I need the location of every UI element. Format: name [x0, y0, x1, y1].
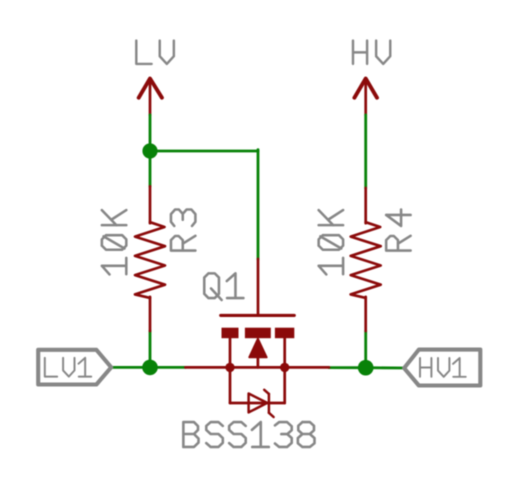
transistor Q1 gate pin	[257, 259, 260, 314]
wire Q1 source to node B (pin)	[185, 366, 230, 369]
wire R4 bottom to node C	[364, 331, 367, 368]
junction Q1 source node	[225, 363, 234, 372]
port label LV1	[45, 358, 91, 377]
wire LV supply to node A	[149, 115, 152, 151]
resistor R3	[135, 186, 165, 331]
body diode wire	[230, 402, 285, 405]
transistor Q1 body pad	[245, 328, 271, 339]
net label LV	[136, 41, 174, 64]
junction node B	[142, 360, 158, 376]
body diode right leg	[283, 367, 286, 403]
wire node A to gate corner	[150, 150, 258, 153]
wire node A to R3 top	[149, 151, 152, 187]
value label 10K (R4)	[319, 210, 343, 274]
wire Q1 source-drain horizontal	[230, 366, 285, 369]
wire gate corner down to Q1 gate	[257, 150, 260, 260]
wire node C to HV1 port	[366, 366, 404, 369]
name label R3	[171, 210, 195, 251]
junction node C	[358, 360, 374, 376]
body diode (zener) symbol	[249, 390, 274, 417]
resistor R4	[351, 188, 381, 331]
body diode left leg	[229, 367, 232, 403]
net label HV	[353, 41, 390, 64]
wire R3 bottom to node B	[149, 331, 152, 367]
supply symbol LV (arrow)	[139, 79, 162, 115]
transistor Q1 drain pin	[283, 338, 286, 367]
transistor Q1 source pad	[222, 328, 239, 339]
port HV1 outline	[404, 350, 480, 386]
wire Q1 drain to node C	[329, 366, 366, 369]
transistor Q1 gate bar	[221, 314, 295, 317]
value label 10K (R3)	[102, 210, 126, 274]
wire Q1 drain to node C (pin)	[285, 366, 329, 369]
junction Q1 drain node	[280, 363, 289, 372]
supply symbol HV (arrow)	[354, 79, 377, 115]
transistor Q1 source pin	[229, 338, 232, 367]
transistor Q1 body arrow	[249, 339, 266, 368]
junction node A	[142, 143, 157, 158]
name label R4	[386, 210, 410, 251]
transistor Q1 drain pad	[275, 328, 294, 339]
value label BSS138	[183, 422, 314, 447]
port LV1 outline	[38, 350, 111, 385]
wire HV supply to R4 top	[364, 115, 367, 188]
wire LV1 port to node B	[111, 366, 185, 369]
name label Q1	[204, 273, 243, 300]
port label HV1	[420, 358, 466, 377]
